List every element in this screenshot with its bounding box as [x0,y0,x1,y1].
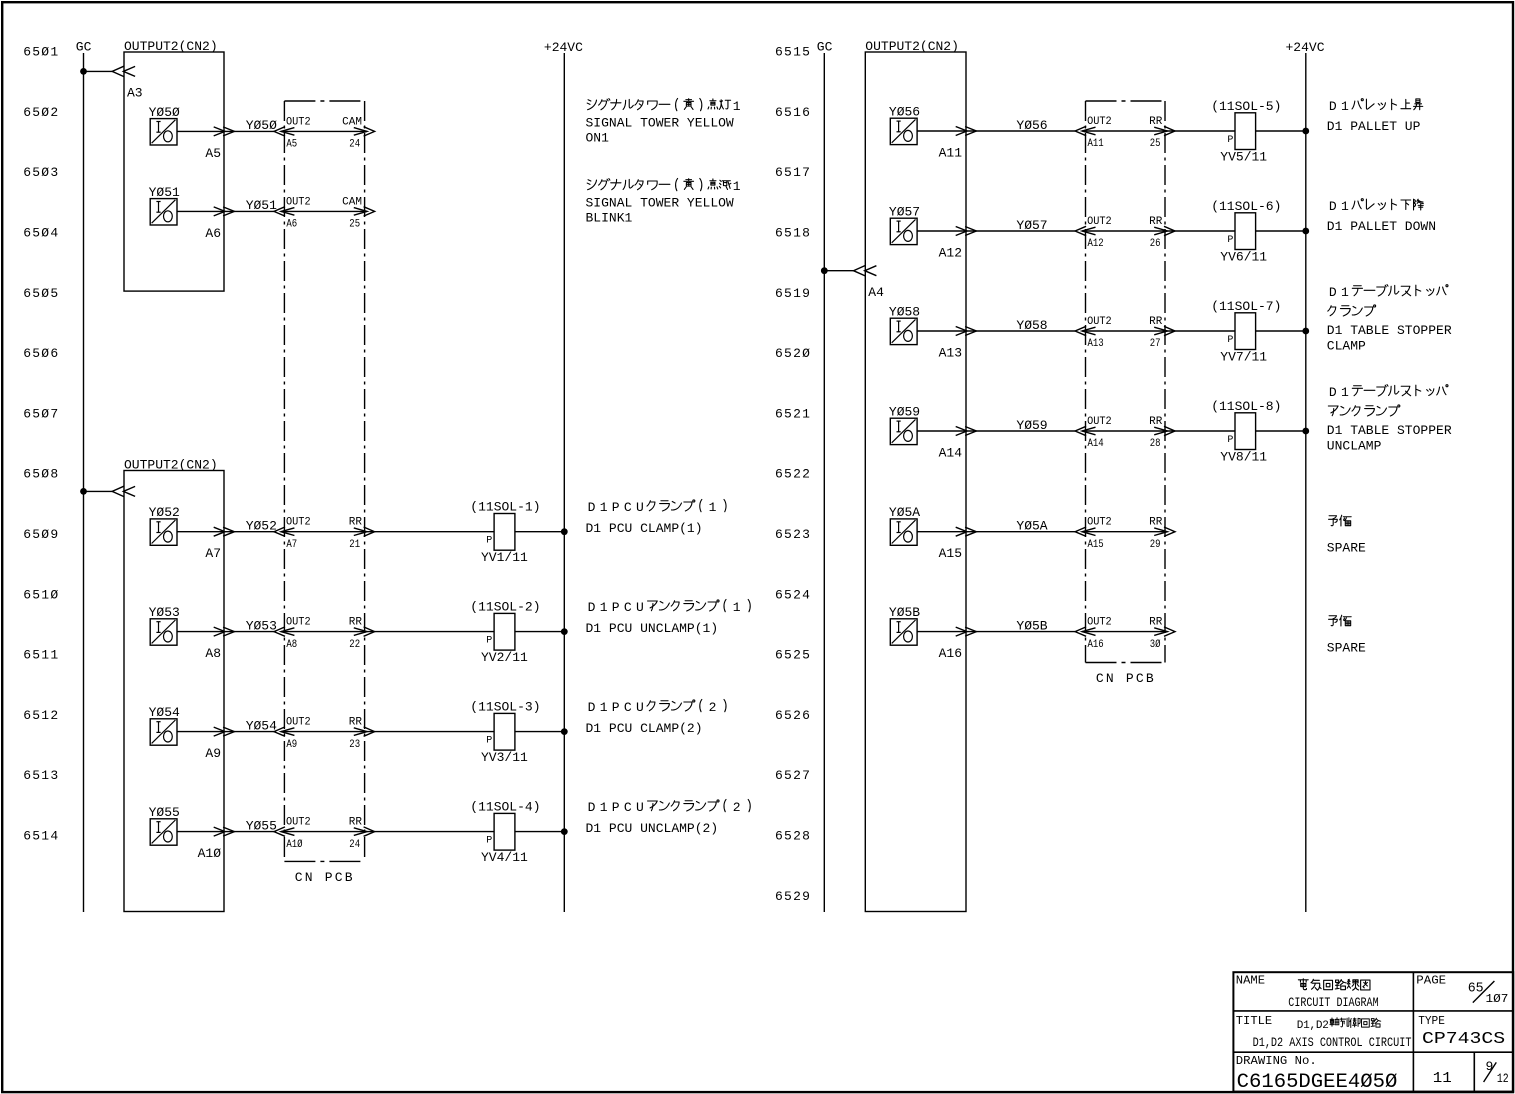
svg-text:65Ø6: 65Ø6 [23,346,59,361]
svg-text:9: 9 [1486,1059,1494,1074]
svg-text:RR: RR [1149,116,1163,128]
svg-text:6515: 6515 [775,45,811,60]
svg-text:YØ5Ø: YØ5Ø [149,105,180,120]
svg-text:24: 24 [349,139,360,151]
wire Y057 output from module to connector [917,230,1075,232]
svg-text:D1 PCU UNCLAMP(2): D1 PCU UNCLAMP(2) [586,821,719,836]
I/O output module Y059 diagonal [892,419,916,442]
I/O output module Y055 letter I [158,822,160,833]
svg-text:CAM: CAM [342,196,362,208]
chevron into CN PCB for Y05B [1075,627,1086,636]
svg-text:D: D [588,700,596,715]
svg-text:65Ø5: 65Ø5 [23,286,59,301]
svg-text:RR: RR [1149,517,1163,529]
svg-text:YØ55: YØ55 [149,805,180,820]
svg-text:NAME: NAME [1236,974,1265,988]
svg-text:6519: 6519 [775,286,811,301]
wire Y056 inside CN PCB [1082,130,1167,132]
svg-text:+24VC: +24VC [1286,40,1325,55]
svg-text:1: 1 [1341,99,1349,114]
wire from solenoid YV3/11 to +24VC bus [515,731,564,733]
arrowhead out of CN PCB for Y050 [354,128,367,136]
svg-text:CP743CS: CP743CS [1422,1030,1505,1049]
svg-text:A14: A14 [1088,438,1104,450]
svg-text:D1 PCU CLAMP(2): D1 PCU CLAMP(2) [586,721,703,736]
svg-text:YØ58: YØ58 [1016,318,1047,333]
svg-text:P: P [612,800,620,815]
svg-text:P: P [612,700,620,715]
svg-text:RR: RR [349,717,363,729]
wire from CN PCB to solenoid YV2/11 [367,631,494,633]
svg-text:(11SOL-4): (11SOL-4) [470,799,540,814]
arrowhead into CN PCB for Y057 [1082,227,1095,235]
svg-text:1: 1 [600,600,608,615]
svg-text:12: 12 [1497,1071,1509,1086]
svg-text:1: 1 [733,99,741,114]
wire GC feed into OUTPUT2(CN2)#3 [824,270,854,272]
arrowhead into CN PCB for Y054 [281,728,294,736]
I/O output module Y053 letter I [158,622,160,633]
CN PCB connector column CN-PCB-L top dash-dot edge [284,100,364,102]
svg-text:A5: A5 [205,146,221,161]
CN PCB connector column CN-PCB-R top dash-dot edge [1086,100,1166,102]
wire GC feed into OUTPUT2(CN2)#1 [84,70,114,72]
svg-text:P: P [486,536,492,547]
svg-text:YV2/11: YV2/11 [481,650,528,665]
I/O output module Y059 letter I [898,421,900,432]
svg-text:D: D [588,600,596,615]
svg-text:U: U [636,600,644,615]
wire from CN PCB to solenoid YV3/11 [367,731,494,733]
svg-text:C: C [624,600,632,615]
svg-text:YØ51: YØ51 [246,198,277,213]
I/O output module Y057 letter O [904,230,913,241]
solenoid valve YV2/11 coil box [494,613,515,650]
svg-text:TYPE: TYPE [1418,1014,1445,1028]
arrow chevrons Y05A at OUTPUT2 box edge [956,527,967,536]
arrow chevrons Y05B at OUTPUT2 box edge [956,627,967,636]
chevron into CN PCB for Y050 [274,127,285,136]
svg-text:YV4/11: YV4/11 [481,850,528,865]
arrowhead out of CN PCB for Y056 [1154,127,1167,135]
svg-text:1: 1 [600,500,608,515]
arrowhead into CN PCB for Y056 [1082,127,1095,135]
svg-text:PAGE: PAGE [1416,974,1446,988]
wire Y054 output from module to connector [177,731,274,733]
arrowhead out of CN PCB for Y054 [354,728,367,736]
chevron into CN PCB for Y059 [1075,426,1086,435]
svg-text:CIRCUIT DIAGRAM: CIRCUIT DIAGRAM [1288,996,1378,1010]
svg-text:28: 28 [1150,438,1161,450]
svg-text:CN PCB: CN PCB [295,870,355,885]
svg-text:6511: 6511 [23,648,59,663]
svg-text:A9: A9 [286,739,297,751]
svg-text:D1 PCU CLAMP(1): D1 PCU CLAMP(1) [586,521,703,536]
wire Y051 inside CN PCB [281,210,367,212]
svg-text:D: D [588,800,596,815]
chevron out of CN PCB for Y05A [1164,527,1175,536]
svg-text:YØ57: YØ57 [1016,218,1047,233]
wire GC bus vertical (left) [83,53,85,912]
svg-text:6529: 6529 [775,889,811,904]
svg-text:(11SOL-3): (11SOL-3) [470,699,540,714]
I/O output module Y057 diagonal [892,219,916,242]
svg-text:OUT2: OUT2 [286,517,311,529]
chevron out of CN PCB for Y055 [364,827,375,836]
svg-text:P: P [1227,435,1233,446]
arrow chevrons Y054 at OUTPUT2 box edge [214,727,225,736]
I/O output module Y05A diagonal [892,520,916,543]
solenoid valve YV5/11 coil box [1235,113,1256,150]
left wire-number column 6501-6514 [23,45,59,844]
svg-text:C: C [624,700,632,715]
I/O output module Y059 box [890,418,917,444]
svg-text:A1Ø: A1Ø [198,846,222,861]
CN PCB connector column CN-PCB-R left dash-dot edge [1085,101,1087,663]
svg-text:YØ58: YØ58 [889,304,920,319]
I/O output module Y054 box [150,719,177,745]
I/O output module Y056 letter I [898,121,900,132]
svg-text:A6: A6 [205,226,221,241]
svg-text:GC: GC [817,40,833,55]
svg-text:D1 TABLE STOPPER: D1 TABLE STOPPER [1327,423,1452,438]
svg-text:D1 PALLET DOWN: D1 PALLET DOWN [1327,219,1436,234]
wire Y057 inside CN PCB [1082,230,1167,232]
chevron into CN PCB for Y055 [274,827,285,836]
svg-text:1: 1 [1341,385,1349,400]
svg-text:P: P [612,600,620,615]
description text d1 pcu unclamp 1 [586,599,751,636]
svg-text:1Ø7: 1Ø7 [1486,992,1509,1006]
wire from solenoid YV1/11 to +24VC bus [515,531,564,533]
solenoid valve YV1/11 coil box [494,514,515,551]
svg-text:6512: 6512 [23,708,59,723]
svg-text:C: C [624,800,632,815]
svg-text:BLINK1: BLINK1 [586,210,633,225]
I/O output module Y058 diagonal [892,319,916,342]
description text d1 table stopper unclamp [1327,385,1452,454]
I/O output module Y055 box [150,819,177,845]
I/O output module Y059 letter O [904,430,913,441]
svg-text:A11: A11 [1088,138,1104,150]
I/O output module Y052 letter I [158,522,160,533]
I/O output module Y058 box [890,318,917,344]
svg-text:2: 2 [709,700,717,715]
I/O output module Y051 box [150,199,177,225]
description text d1 pcu clamp 2 [586,699,727,736]
arrow chevrons Y053 at OUTPUT2 box edge [214,627,225,636]
svg-text:3Ø: 3Ø [1150,639,1161,651]
svg-text:OUT2: OUT2 [1087,216,1112,228]
chevron out of CN PCB for Y059 [1164,426,1175,435]
svg-text:SIGNAL TOWER YELLOW: SIGNAL TOWER YELLOW [586,195,734,210]
svg-text:P: P [486,635,492,646]
svg-text:CAM: CAM [342,116,362,128]
svg-text:(11SOL-5): (11SOL-5) [1211,99,1281,114]
svg-text:A12: A12 [1088,238,1104,250]
svg-text:A13: A13 [939,346,962,361]
wire from CN PCB to solenoid YV7/11 [1167,330,1235,332]
I/O output module Y05B letter O [904,631,913,642]
svg-text:6521: 6521 [775,406,811,421]
svg-text:6523: 6523 [775,527,811,542]
I/O output module Y057 box [890,218,917,244]
I/O output module Y05A letter I [898,522,900,533]
junction on +24VC bus for YV3/11 [561,728,568,735]
svg-text:YV7/11: YV7/11 [1220,350,1267,365]
chevron out of CN PCB for Y057 [1164,226,1175,235]
svg-text:65Ø7: 65Ø7 [23,406,59,421]
wire Y05B inside CN PCB [1082,631,1167,633]
svg-text:P: P [486,835,492,846]
svg-text:A4: A4 [868,285,884,300]
I/O output module Y051 letter I [158,202,160,213]
svg-text:25: 25 [349,219,360,231]
wire +24VC bus vertical (right) [1305,53,1307,912]
svg-text:2: 2 [1322,1020,1329,1032]
svg-text:1: 1 [1341,285,1349,300]
chevron out of CN PCB for Y058 [1164,326,1175,335]
wire from solenoid YV7/11 to +24VC bus [1256,330,1306,332]
wire Y052 inside CN PCB [281,531,367,533]
svg-text:GC: GC [76,40,92,55]
chevron into CN PCB for Y053 [274,627,285,636]
chevron out of CN PCB for Y051 [364,207,375,216]
wire from CN PCB to solenoid YV4/11 [367,831,494,833]
solenoid valve YV4/11 coil box [494,813,515,850]
svg-text:YØ54: YØ54 [246,718,277,733]
I/O output module Y055 diagonal [152,820,176,843]
wire from CN PCB to solenoid YV1/11 [367,531,494,533]
svg-text:YV1/11: YV1/11 [481,550,528,565]
I/O output module Y051 diagonal [152,200,176,223]
svg-text:25: 25 [1150,138,1161,150]
I/O output module Y056 letter O [904,130,913,141]
svg-text:D: D [1329,99,1337,114]
svg-text:RR: RR [1149,316,1163,328]
wire Y050 output from module to connector [177,130,274,132]
arrowhead into CN PCB for Y052 [281,528,294,536]
svg-text:A16: A16 [1088,639,1104,651]
svg-text:2: 2 [733,800,741,815]
wire Y056 output from module to connector [917,130,1075,132]
description text d1 pallet up [1327,99,1423,134]
svg-text:A8: A8 [286,639,297,651]
junction on +24VC bus for YV1/11 [561,528,568,535]
title block outline [1233,972,1513,1091]
svg-text:6527: 6527 [775,768,811,783]
svg-text:YØ5B: YØ5B [1016,618,1047,633]
I/O output module Y05A box [890,519,917,545]
svg-text:26: 26 [1150,238,1161,250]
svg-text:C6165DGEE4Ø5Ø: C6165DGEE4Ø5Ø [1237,1071,1398,1094]
svg-text:A14: A14 [939,446,963,461]
solenoid valve YV8/11 coil box [1235,413,1256,450]
chevron into CN PCB for Y051 [274,207,285,216]
svg-text:1: 1 [733,179,741,194]
svg-text:ON1: ON1 [586,130,610,145]
chevron out of CN PCB for Y05B [1164,627,1175,636]
chevron arrows into OUTPUT2(CN2)#1 [112,66,124,76]
svg-text:CLAMP: CLAMP [1327,338,1366,353]
wire Y052 output from module to connector [177,531,274,533]
wire Y05A inside CN PCB [1082,531,1167,533]
wire Y059 output from module to connector [917,430,1075,432]
svg-text:P: P [1227,335,1233,346]
I/O output module Y053 letter O [164,631,173,642]
description text d1 pallet down [1327,199,1436,234]
svg-text:D1 TABLE STOPPER: D1 TABLE STOPPER [1327,323,1452,338]
I/O output module Y054 letter I [158,722,160,733]
wire from CN PCB to solenoid YV5/11 [1167,130,1235,132]
arrow chevrons Y052 at OUTPUT2 box edge [214,527,225,536]
svg-text:D: D [1329,385,1337,400]
svg-text:YØ57: YØ57 [889,204,920,219]
wire Y051 output from module to connector [177,210,274,212]
chevron out of CN PCB for Y053 [364,627,375,636]
svg-text:C: C [624,500,632,515]
svg-text:65Ø3: 65Ø3 [23,165,59,180]
svg-text:YV3/11: YV3/11 [481,750,528,765]
svg-text:YV5/11: YV5/11 [1220,150,1267,165]
I/O output module Y052 diagonal [152,520,176,543]
svg-text:U: U [636,700,644,715]
svg-text:YØ53: YØ53 [149,605,180,620]
CN PCB connector column CN-PCB-L bottom dash-dot edge [284,860,364,862]
wire Y05A output from module to connector [917,531,1075,533]
svg-text:YØ53: YØ53 [246,618,277,633]
I/O output module Y058 letter I [898,321,900,332]
CN PCB connector column CN-PCB-R right dash-dot edge [1164,101,1166,663]
svg-text:OUT2: OUT2 [1087,316,1112,328]
svg-text:OUT2: OUT2 [1087,116,1112,128]
svg-text:1: 1 [709,500,717,515]
junction on GC bus at OUTPUT2(CN2)#1 feed [80,68,87,75]
svg-text:P: P [486,735,492,746]
junction on GC bus at OUTPUT2(CN2)#2 feed [80,488,87,495]
svg-text:RR: RR [1149,617,1163,629]
wire Y058 output from module to connector [917,330,1075,332]
svg-text:YØ54: YØ54 [149,705,180,720]
svg-text:OUT2: OUT2 [1087,617,1112,629]
chevron into CN PCB for Y052 [274,527,285,536]
description text spare 1 [1327,515,1366,555]
svg-text:6518: 6518 [775,226,811,241]
arrowhead out of CN PCB for Y05A [1154,528,1167,536]
I/O output module Y055 letter O [164,831,173,842]
arrow chevrons Y051 at OUTPUT2 box edge [214,207,225,216]
wire GC feed into OUTPUT2(CN2)#2 [84,490,114,492]
wire from solenoid YV5/11 to +24VC bus [1256,130,1306,132]
I/O output module Y05B diagonal [892,620,916,643]
svg-text:D: D [1329,285,1337,300]
svg-text:DRAWING No.: DRAWING No. [1236,1054,1317,1068]
I/O output module Y050 letter I [158,122,160,133]
chevron out of CN PCB for Y054 [364,727,375,736]
title block column separator [1412,972,1414,1091]
svg-text:YØ52: YØ52 [149,505,180,520]
svg-text:A15: A15 [1088,539,1104,551]
svg-text:RR: RR [1149,416,1163,428]
I/O output module Y052 box [150,519,177,545]
svg-text:24: 24 [349,839,360,851]
connector block OUTPUT2(CN2)#3 outline [865,52,966,912]
svg-text:22: 22 [349,639,360,651]
svg-text:1: 1 [600,800,608,815]
wire Y053 inside CN PCB [281,631,367,633]
svg-text:6516: 6516 [775,105,811,120]
svg-text:U: U [636,500,644,515]
svg-text:6522: 6522 [775,467,811,482]
I/O output module Y054 diagonal [152,720,176,743]
svg-text:A6: A6 [286,219,297,231]
description text d1 table stopper clamp [1327,285,1452,354]
svg-text:6524: 6524 [775,587,811,602]
arrow chevrons Y059 at OUTPUT2 box edge [956,427,967,436]
svg-text:65Ø8: 65Ø8 [23,467,59,482]
svg-text:D: D [1329,199,1337,214]
description text signal tower yellow on1 [586,98,741,145]
description text d1 pcu unclamp 2 [586,799,751,836]
wire Y058 inside CN PCB [1082,330,1167,332]
I/O output module Y053 diagonal [152,620,176,643]
svg-text:(11SOL-1): (11SOL-1) [470,500,540,515]
wire +24VC bus vertical (left) [563,53,565,912]
junction on +24VC bus for YV4/11 [561,828,568,835]
svg-text:A9: A9 [205,746,221,761]
wire Y055 output from module to connector [177,831,274,833]
description text d1 pcu clamp 1 [586,499,727,536]
chevron arrows into OUTPUT2(CN2)#3 [854,266,866,276]
svg-text:YØ5A: YØ5A [1016,519,1047,534]
svg-text:YØ51: YØ51 [149,185,180,200]
svg-text:A7: A7 [205,546,221,561]
svg-text:OUT2: OUT2 [286,617,311,629]
svg-text:OUT2: OUT2 [286,717,311,729]
svg-text:A7: A7 [286,539,297,551]
arrowhead into CN PCB for Y05B [1082,628,1095,636]
chevron arrows into OUTPUT2(CN2)#2 [112,486,124,496]
svg-text:6526: 6526 [775,708,811,723]
svg-text:(11SOL-6): (11SOL-6) [1211,199,1281,214]
arrowhead out of CN PCB for Y05B [1154,628,1167,636]
wire Y05B output from module to connector [917,631,1075,633]
arrowhead out of CN PCB for Y052 [354,528,367,536]
svg-text:D: D [588,500,596,515]
junction on +24VC bus for YV7/11 [1302,328,1309,335]
svg-text:SPARE: SPARE [1327,640,1366,655]
arrowhead out of CN PCB for Y053 [354,628,367,636]
wire from CN PCB to solenoid YV6/11 [1167,230,1235,232]
svg-text:(11SOL-2): (11SOL-2) [470,599,540,614]
arrowhead into CN PCB for Y055 [281,828,294,836]
title block name Japanese 電気回路線図 [1298,979,1308,990]
arrow chevrons Y057 at OUTPUT2 box edge [956,227,967,236]
wire from solenoid YV8/11 to +24VC bus [1256,430,1306,432]
svg-text:OUT2: OUT2 [286,196,311,208]
svg-text:6528: 6528 [775,829,811,844]
arrowhead into CN PCB for Y051 [281,208,294,216]
wire from solenoid YV6/11 to +24VC bus [1256,230,1306,232]
I/O output module Y05B box [890,619,917,645]
chevron into CN PCB for Y058 [1075,326,1086,335]
arrow chevrons Y050 at OUTPUT2 box edge [214,127,225,136]
junction on +24VC bus for YV5/11 [1302,128,1309,135]
svg-text:D1 PCU UNCLAMP(1): D1 PCU UNCLAMP(1) [586,621,719,636]
wire Y055 inside CN PCB [281,831,367,833]
svg-text:1: 1 [600,700,608,715]
svg-text:YØ5B: YØ5B [889,605,920,620]
